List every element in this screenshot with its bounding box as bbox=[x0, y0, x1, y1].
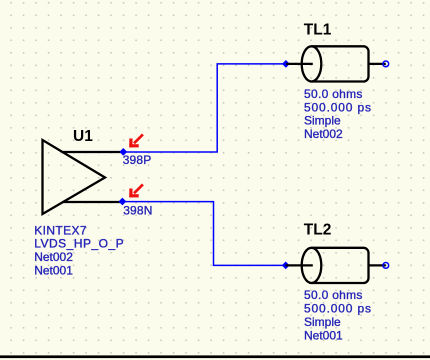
pin TL1.2 open circle terminal bbox=[383, 61, 389, 67]
transmission line TL2 cylinder body bbox=[312, 248, 369, 283]
junction diamond at TL2 input bbox=[282, 262, 290, 270]
junction diamond at pin 398N bbox=[119, 198, 127, 206]
junction diamond at TL1 input bbox=[282, 60, 290, 68]
svg-text:Simple: Simple bbox=[304, 114, 341, 128]
pin TL2.2 (right) bbox=[369, 264, 386, 266]
svg-text:500.000 ps: 500.000 ps bbox=[304, 100, 372, 114]
pin TL2.1 (left) bbox=[286, 264, 313, 266]
svg-text:KINTEX7: KINTEX7 bbox=[34, 223, 87, 237]
pin 398N line bbox=[63, 201, 122, 203]
svg-text:Net002: Net002 bbox=[34, 250, 73, 264]
svg-text:398N: 398N bbox=[123, 204, 153, 218]
svg-text:50.0 ohms: 50.0 ohms bbox=[304, 288, 363, 302]
junction diamond at pin 398P bbox=[119, 148, 127, 156]
svg-text:398P: 398P bbox=[123, 153, 152, 167]
wire 398N to TL2 bbox=[124, 202, 285, 266]
transmission line TL1 left ellipse bbox=[302, 46, 322, 81]
red marker arrow at pin 398P bbox=[129, 134, 143, 147]
buffer U1 triangle body bbox=[43, 140, 106, 214]
pin TL2.2 open circle terminal bbox=[383, 263, 389, 269]
pin TL1.1 (left) bbox=[286, 63, 313, 65]
red marker arrow at pin 398N bbox=[129, 184, 143, 197]
svg-text:500.000 ps: 500.000 ps bbox=[304, 302, 372, 316]
transmission line TL1 cylinder body bbox=[312, 46, 369, 81]
pin TL1.2 (right) bbox=[369, 63, 386, 65]
svg-text:50.0 ohms: 50.0 ohms bbox=[304, 87, 363, 101]
svg-text:Simple: Simple bbox=[304, 315, 341, 329]
svg-text:TL2: TL2 bbox=[304, 221, 332, 238]
svg-text:LVDS_HP_O_P: LVDS_HP_O_P bbox=[34, 237, 124, 251]
svg-text:Net001: Net001 bbox=[304, 328, 343, 342]
pin 398P line bbox=[63, 151, 122, 153]
svg-text:Net002: Net002 bbox=[304, 127, 343, 141]
wire 398P to TL1 bbox=[124, 64, 285, 152]
svg-text:U1: U1 bbox=[73, 128, 93, 145]
svg-text:Net001: Net001 bbox=[34, 264, 73, 278]
transmission line TL2 left ellipse bbox=[302, 248, 322, 283]
svg-text:TL1: TL1 bbox=[304, 21, 332, 38]
